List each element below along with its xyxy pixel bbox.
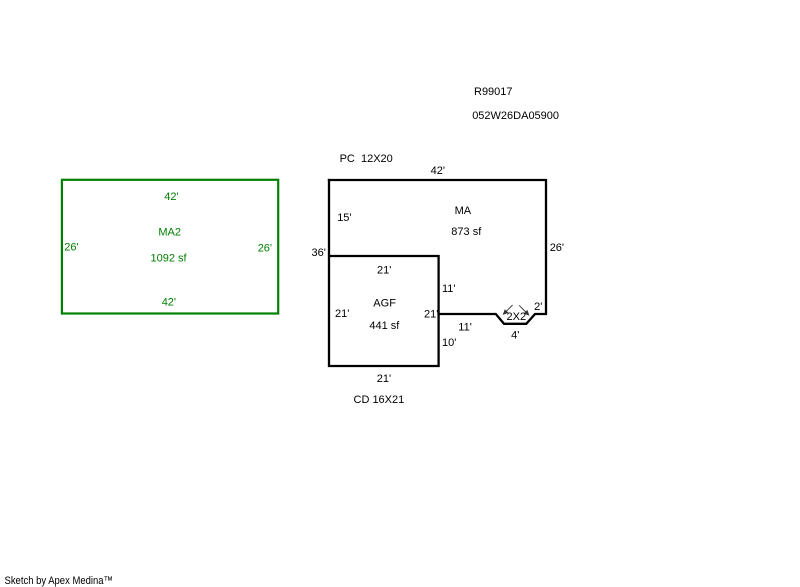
svg-text:36': 36' bbox=[312, 247, 326, 259]
svg-text:R99017: R99017 bbox=[474, 86, 513, 98]
svg-text:MA: MA bbox=[455, 205, 472, 217]
svg-text:26': 26' bbox=[258, 243, 272, 255]
svg-text:11': 11' bbox=[458, 321, 472, 333]
svg-text:42': 42' bbox=[162, 297, 176, 309]
svg-text:052W26DA05900: 052W26DA05900 bbox=[472, 110, 559, 122]
svg-text:441 sf: 441 sf bbox=[369, 320, 400, 332]
svg-text:26': 26' bbox=[64, 242, 78, 254]
svg-text:873 sf: 873 sf bbox=[451, 226, 482, 238]
svg-text:Sketch by Apex Medina™: Sketch by Apex Medina™ bbox=[5, 575, 114, 587]
svg-text:MA2: MA2 bbox=[158, 227, 181, 239]
svg-text:1092 sf: 1092 sf bbox=[151, 252, 188, 264]
svg-text:10': 10' bbox=[442, 337, 456, 349]
svg-text:PC 12X20: PC 12X20 bbox=[340, 153, 393, 165]
svg-text:42': 42' bbox=[431, 165, 445, 177]
svg-text:21': 21' bbox=[335, 308, 349, 320]
svg-text:2X2: 2X2 bbox=[507, 311, 527, 323]
svg-text:11': 11' bbox=[442, 283, 456, 295]
svg-text:4': 4' bbox=[511, 330, 519, 342]
svg-text:CD 16X21: CD 16X21 bbox=[354, 394, 405, 406]
svg-text:42': 42' bbox=[164, 191, 178, 203]
svg-text:AGF: AGF bbox=[373, 298, 396, 310]
svg-text:26': 26' bbox=[550, 242, 564, 254]
svg-text:21': 21' bbox=[377, 373, 391, 385]
svg-text:21': 21' bbox=[377, 265, 391, 277]
svg-text:2': 2' bbox=[534, 301, 542, 313]
svg-text:21': 21' bbox=[424, 309, 438, 321]
svg-text:15': 15' bbox=[337, 212, 351, 224]
